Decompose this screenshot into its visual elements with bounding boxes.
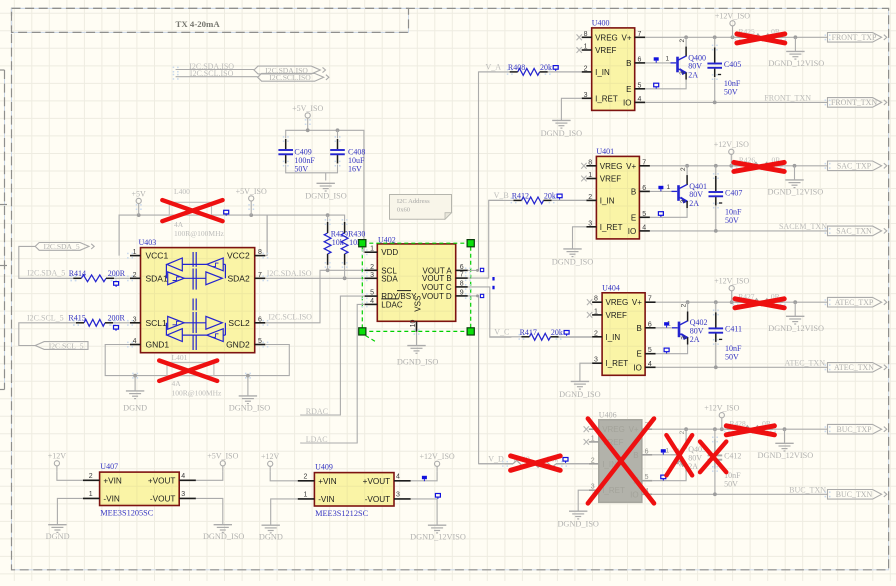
svg-text:1: 1: [133, 249, 137, 256]
wire U404 IO: [656, 365, 828, 369]
wire +5V rail: [119, 213, 345, 255]
resistor 0R (crossed out) U406: [724, 419, 776, 435]
svg-text:FRONT_TXP: FRONT_TXP: [832, 33, 877, 42]
ic U404 body: [602, 284, 645, 376]
svg-text:3: 3: [133, 316, 137, 323]
svg-text:V_A: V_A: [486, 63, 502, 72]
svg-text:200R: 200R: [108, 314, 126, 323]
svg-text:SDA: SDA: [381, 274, 398, 283]
left partial dashed boundary: [0, 70, 7, 390]
svg-text:+12V_ISO: +12V_ISO: [420, 452, 455, 461]
wire net V_B: [468, 200, 587, 278]
svg-text:SCL1: SCL1: [146, 318, 168, 328]
svg-text:+VIN: +VIN: [318, 477, 337, 486]
svg-text:-VOUT: -VOUT: [365, 495, 390, 504]
inductor L401 (crossed out): [159, 353, 222, 397]
svg-text:B: B: [637, 324, 642, 333]
svg-text:VREG: VREG: [595, 33, 618, 42]
resistor R429 10k: [324, 219, 348, 268]
wire R430 bottom: [344, 265, 346, 278]
U400 no-connect marks: [577, 34, 582, 53]
svg-text:+5V_ISO: +5V_ISO: [207, 452, 238, 461]
svg-text:VREF: VREF: [595, 46, 616, 55]
marker V_B: [492, 277, 494, 281]
svg-text:I2C.SDA_5: I2C.SDA_5: [27, 269, 65, 278]
svg-text:V+: V+: [621, 33, 631, 42]
svg-text:2: 2: [370, 264, 374, 271]
svg-text:4: 4: [642, 224, 646, 231]
ic U407 body: [100, 462, 180, 517]
ic U400 body: [592, 19, 635, 111]
svg-text:6: 6: [645, 448, 649, 455]
U407 pins: [83, 473, 196, 498]
svg-text:U401: U401: [596, 147, 614, 156]
wire net VCC2 to +5V_ISO: [265, 215, 267, 256]
wire U401 I_RET to ground: [573, 227, 587, 249]
svg-text:+12V: +12V: [48, 452, 67, 461]
svg-text:DGND_ISO: DGND_ISO: [552, 257, 594, 266]
svg-text:2: 2: [681, 303, 688, 307]
text frame I2C Address note: [390, 195, 452, 220]
power port +12V_ISO U400: [715, 12, 750, 38]
net label BUC_TXN: [789, 485, 826, 494]
svg-text:-VIN: -VIN: [318, 495, 334, 504]
svg-text:+12V_ISO: +12V_ISO: [714, 277, 749, 286]
marker V_A: [480, 268, 483, 271]
svg-text:4: 4: [181, 473, 185, 480]
svg-text:7: 7: [642, 159, 646, 166]
svg-text:5: 5: [370, 290, 374, 297]
svg-text:GND1: GND1: [146, 340, 170, 350]
svg-text:SDA2: SDA2: [227, 273, 249, 283]
svg-text:7: 7: [638, 31, 642, 38]
net label _LDAC: [301, 435, 328, 444]
U406 no-connect marks: [584, 426, 589, 445]
net label I2C.SDA_5: [27, 269, 65, 278]
net label I2C.SDA.ISO top: [189, 62, 234, 71]
svg-text:+12V: +12V: [261, 452, 280, 461]
svg-text:DGND_ISO: DGND_ISO: [203, 532, 245, 541]
svg-text:1: 1: [666, 184, 670, 191]
svg-text:IO: IO: [633, 363, 641, 372]
svg-text:V_B: V_B: [494, 191, 509, 200]
svg-text:4A: 4A: [172, 379, 182, 388]
svg-text:L400: L400: [174, 187, 190, 196]
net label V_D: [488, 455, 504, 464]
net label _RDAC: [301, 407, 328, 416]
svg-text:50V: 50V: [724, 88, 738, 97]
svg-text:SAC_TXN: SAC_TXN: [836, 227, 872, 236]
svg-text:2: 2: [679, 430, 686, 434]
svg-text:DGND_ISO: DGND_ISO: [559, 390, 601, 399]
ic U403 body: [139, 238, 255, 353]
svg-text:B: B: [633, 451, 638, 460]
wire net V_A: [468, 72, 582, 272]
svg-text:R417: R417: [520, 328, 537, 337]
resistor R419 (crossed out): [502, 455, 568, 471]
svg-text:B: B: [631, 187, 636, 196]
svg-text:80V: 80V: [689, 190, 703, 199]
svg-text:I2C.SDA_5: I2C.SDA_5: [44, 242, 80, 251]
svg-text:IO: IO: [623, 98, 631, 107]
svg-text:5: 5: [638, 82, 642, 89]
power port +5V: [132, 189, 147, 215]
svg-text:50V: 50V: [724, 479, 738, 488]
svg-text:2A: 2A: [690, 335, 700, 344]
svg-text:20k: 20k: [540, 63, 552, 72]
svg-text:4: 4: [648, 361, 652, 368]
svg-text:VREG: VREG: [602, 425, 625, 434]
capacitor C411 10nF: [709, 302, 743, 367]
svg-text:2A: 2A: [689, 199, 699, 208]
svg-text:6: 6: [460, 264, 464, 271]
power port +12V for U407: [48, 452, 83, 481]
svg-text:VREG: VREG: [600, 162, 623, 171]
wire U404 base: [656, 322, 672, 328]
U403 pins: [130, 249, 265, 345]
svg-text:3: 3: [370, 272, 374, 279]
transistor Q402: [667, 302, 708, 344]
resistor R430 10k: [341, 219, 365, 268]
wire net V_D: [468, 294, 589, 463]
svg-text:VCC1: VCC1: [146, 251, 169, 261]
wire U407 -VIN to ground: [57, 498, 83, 524]
svg-text:+5V_ISO: +5V_ISO: [292, 104, 323, 113]
svg-text:U407: U407: [100, 462, 118, 471]
wire net GND1 loop: [105, 345, 289, 378]
net label ATEC_TXN: [785, 358, 826, 367]
port BUC_TXP: [828, 424, 887, 434]
wire net I2C.SDA.ISO top: [173, 67, 254, 73]
svg-text:DGND_12VISO: DGND_12VISO: [768, 59, 824, 68]
wire +5V_ISO cap rail: [286, 128, 365, 252]
svg-text:3: 3: [679, 71, 686, 75]
ground DGND for U407: [46, 525, 70, 541]
ground DGND: [123, 376, 147, 413]
svg-text:R408: R408: [508, 63, 525, 72]
ground DGND_ISO U400: [541, 120, 583, 137]
svg-text:DGND: DGND: [259, 533, 283, 542]
svg-text:I_IN: I_IN: [595, 68, 610, 77]
svg-text:C405: C405: [724, 60, 741, 69]
svg-text:VCC2: VCC2: [227, 251, 250, 261]
wire net V_B: [489, 199, 587, 201]
svg-text:200R: 200R: [108, 269, 126, 278]
svg-text:I_IN: I_IN: [606, 333, 621, 342]
wire U400 I_RET to ground: [561, 98, 581, 120]
port I2C.SCL.ISO: [258, 73, 329, 82]
transistor Q403: [665, 429, 706, 471]
svg-text:+12V_ISO: +12V_ISO: [704, 404, 739, 413]
big red X over U406: [588, 419, 654, 504]
svg-text:8: 8: [460, 280, 464, 287]
svg-text:U409: U409: [315, 463, 333, 472]
ground DGND_12VISO U404: [768, 302, 824, 333]
svg-text:I2C.SCL.ISO: I2C.SCL.ISO: [268, 313, 312, 322]
svg-text:DGND_12VISO: DGND_12VISO: [768, 188, 824, 197]
svg-text:LDAC: LDAC: [381, 300, 403, 309]
power port +12V_ISO U404: [714, 277, 749, 303]
svg-text:I2C.SCL_5: I2C.SCL_5: [27, 314, 64, 323]
svg-text:GND2: GND2: [226, 340, 250, 350]
net label V_B: [494, 191, 509, 200]
svg-text:DGND_ISO: DGND_ISO: [541, 129, 583, 138]
U401 pins: [586, 159, 650, 231]
svg-text:DGND_12VISO: DGND_12VISO: [768, 324, 824, 333]
power port +12V for U409: [261, 452, 298, 481]
svg-text:I_RET: I_RET: [602, 486, 625, 495]
svg-text:80V: 80V: [688, 62, 702, 71]
svg-text:6: 6: [638, 56, 642, 63]
ic U409 body: [314, 463, 394, 518]
svg-text:VREF: VREF: [606, 311, 627, 320]
svg-text:16V: 16V: [348, 164, 362, 173]
svg-text:U403: U403: [139, 238, 157, 247]
wire U409 -VIN to ground: [271, 499, 298, 525]
svg-text:3: 3: [588, 220, 592, 227]
svg-text:R412: R412: [512, 192, 529, 201]
svg-text:1: 1: [584, 44, 588, 51]
wire U404 V+ rail: [656, 300, 828, 304]
wire U404 I_RET to ground: [580, 363, 592, 381]
svg-text:2: 2: [303, 474, 307, 481]
svg-text:100R@100MHz: 100R@100MHz: [172, 389, 222, 398]
wire R429 bottom: [327, 265, 329, 270]
capacitor C407 10nF: [709, 166, 743, 231]
svg-text:FRONT_TXN: FRONT_TXN: [764, 93, 811, 102]
wire net V_A: [479, 71, 582, 73]
svg-text:I_IN: I_IN: [600, 196, 615, 205]
wire U406 emitter: [652, 472, 686, 481]
wire net I2C.SCL.ISO top: [173, 74, 258, 80]
svg-text:E: E: [631, 213, 636, 222]
svg-text:DGND_ISO: DGND_ISO: [397, 357, 439, 366]
svg-text:1: 1: [665, 447, 669, 454]
svg-text:VREF: VREF: [600, 175, 621, 184]
svg-text:IO: IO: [630, 490, 638, 499]
port SAC_TXP: [828, 161, 887, 171]
marker V_D: [480, 294, 483, 297]
svg-text:BUC_TXP: BUC_TXP: [836, 425, 872, 434]
svg-text:I2C.SCL.ISO: I2C.SCL.ISO: [190, 69, 234, 78]
svg-text:+VOUT: +VOUT: [363, 477, 391, 486]
ground DGND_ISO under L401: [229, 376, 271, 413]
wire U409 -VOUT to ground: [411, 499, 437, 525]
wire U400 IO: [645, 101, 827, 105]
U403 isolation barrier: [193, 252, 196, 350]
svg-text:4: 4: [133, 338, 137, 345]
wire U406 I_RET to ground: [578, 490, 589, 511]
power port +5V_ISO (second): [292, 104, 323, 131]
svg-text:E: E: [637, 350, 642, 359]
svg-text:VREG: VREG: [606, 298, 629, 307]
capacitor C412 10nF: [708, 429, 742, 494]
ground DGND_12VISO U401: [768, 166, 824, 197]
wire net I2C.SCL_5: [19, 320, 130, 346]
capacitor C405 10nF: [707, 37, 741, 102]
wire U404 emitter: [656, 345, 688, 354]
svg-text:+5V_ISO: +5V_ISO: [236, 187, 267, 196]
TX 4-20mA dashed region: [12, 8, 409, 32]
port FRONT_TXP: [828, 33, 887, 43]
ground DGND_ISO U401: [552, 249, 594, 267]
svg-text:DGND: DGND: [46, 532, 70, 541]
U402 selection highlight: [359, 240, 475, 343]
svg-text:50V: 50V: [725, 216, 739, 225]
svg-text:3: 3: [681, 336, 688, 340]
power port +5V_ISO for U407: [196, 452, 239, 481]
wire U402 VSS to ground: [416, 332, 418, 346]
wire U400 emitter: [645, 80, 686, 89]
wire U401 base: [650, 186, 672, 192]
power port +12V_ISO U406: [704, 404, 739, 430]
svg-text:_RDAC: _RDAC: [301, 407, 328, 416]
svg-text:7: 7: [460, 272, 464, 279]
svg-text:SACEM_TXN: SACEM_TXN: [779, 222, 827, 231]
svg-text:C412: C412: [724, 452, 741, 461]
wire U401 IO: [650, 229, 828, 233]
wire U406 IO: [652, 492, 827, 496]
U406 pins: [589, 423, 653, 495]
resistor R417 20k: [519, 328, 570, 340]
port I2C.SDA_5: [35, 242, 94, 251]
resistor R414 200R: [69, 269, 126, 287]
svg-text:I_RET: I_RET: [606, 359, 629, 368]
ground DGND_12VISO U400: [768, 37, 824, 68]
svg-text:4: 4: [638, 96, 642, 103]
svg-text:BUC_TXN: BUC_TXN: [836, 490, 873, 499]
port FRONT_TXN: [828, 98, 887, 108]
svg-text:I2C.SCL.ISO: I2C.SCL.ISO: [269, 73, 311, 82]
svg-text:2: 2: [591, 457, 595, 464]
svg-text:E: E: [626, 85, 631, 94]
svg-text:5: 5: [645, 474, 649, 481]
net label I2C.SCL.ISO mid: [268, 313, 312, 322]
grip speckles: [127, 34, 830, 497]
U403 buffer triangles SDA: [166, 258, 225, 285]
inductor L400 (crossed out): [162, 187, 228, 238]
svg-text:V_D: V_D: [488, 455, 504, 464]
svg-text:B: B: [626, 59, 631, 68]
port ATEC_TXP: [828, 297, 887, 307]
ic U406 body: [599, 411, 642, 503]
wire net RDAC: [300, 296, 364, 415]
port I2C.SCL_5: [35, 341, 88, 350]
wire net LDAC: [300, 304, 364, 443]
port I2C.SDA.ISO: [254, 66, 326, 75]
svg-text:VDD: VDD: [381, 248, 398, 257]
svg-text:DGND_ISO: DGND_ISO: [557, 520, 599, 529]
svg-text:80V: 80V: [690, 326, 704, 335]
ic U402 body: [377, 235, 455, 321]
svg-text:4: 4: [370, 298, 374, 305]
net label I2C.SCL_5: [27, 314, 64, 323]
svg-text:DGND_12VISO: DGND_12VISO: [758, 451, 814, 460]
transistor Q401: [666, 166, 707, 208]
wire U401 emitter: [650, 208, 687, 217]
ground DGND_ISO for U407: [203, 525, 245, 541]
svg-text:ATEC_TXN: ATEC_TXN: [785, 358, 826, 367]
net label V_A: [486, 63, 502, 72]
svg-text:MEE3S1212SC: MEE3S1212SC: [315, 509, 368, 518]
svg-text:L401: L401: [172, 353, 188, 362]
wire net I2C.SDA.ISO mid: [265, 276, 364, 280]
svg-text:1: 1: [594, 308, 598, 315]
svg-text:DGND_12VISO: DGND_12VISO: [410, 533, 466, 542]
resistor R408 20k: [507, 63, 558, 75]
resistor 0R (crossed out) U404: [733, 292, 786, 308]
svg-text:I_RET: I_RET: [595, 94, 618, 103]
ground DGND_12VISO U406: [758, 429, 814, 460]
svg-text:8: 8: [594, 296, 598, 303]
power port +12V_ISO for U409: [411, 452, 455, 481]
svg-text:3: 3: [396, 492, 400, 499]
svg-text:I2C.SCL_5: I2C.SCL_5: [49, 341, 84, 350]
svg-text:2: 2: [588, 194, 592, 201]
svg-text:R414: R414: [69, 269, 86, 278]
svg-text:FRONT_TXN: FRONT_TXN: [831, 98, 877, 107]
svg-text:SCL2: SCL2: [228, 318, 250, 328]
svg-text:SAC_TXP: SAC_TXP: [837, 162, 872, 171]
wire U406 base: [652, 449, 670, 455]
resistor R412 20k: [511, 192, 562, 204]
wire U401 V+ rail: [650, 164, 828, 168]
svg-text:VOUT D: VOUT D: [422, 292, 452, 301]
wire net V_C: [490, 336, 592, 338]
svg-text:V+: V+: [632, 298, 642, 307]
svg-text:ATEC_TXN: ATEC_TXN: [834, 363, 874, 372]
svg-text:50V: 50V: [725, 352, 739, 361]
wire net I2C.SDA_5: [19, 246, 130, 281]
svg-text:2: 2: [133, 272, 137, 279]
svg-text:TX 4-20mA: TX 4-20mA: [176, 19, 221, 29]
svg-text:I2C Address: I2C Address: [397, 198, 430, 205]
marker V_C: [492, 286, 494, 290]
svg-text:C411: C411: [725, 325, 742, 334]
wire net I2C.SCL.ISO mid: [265, 268, 364, 322]
svg-text:R415: R415: [68, 314, 85, 323]
svg-text:1: 1: [591, 435, 595, 442]
net label FRONT_TXN: [764, 93, 811, 102]
svg-text:1: 1: [303, 492, 307, 499]
svg-text:-VIN: -VIN: [103, 494, 119, 503]
svg-text:DGND: DGND: [123, 403, 147, 412]
net label I2C.SDA.ISO mid: [267, 269, 312, 278]
red X over C412: [700, 442, 726, 473]
ground DGND_12VISO for U409: [410, 525, 466, 541]
resistor 0R (crossed out) U400: [735, 27, 787, 43]
svg-text:I_RET: I_RET: [600, 223, 623, 232]
ground DGND_ISO U404: [559, 381, 601, 399]
ic U401 body: [596, 147, 639, 239]
svg-text:+5V: +5V: [132, 189, 147, 198]
ground DGND for U409: [259, 525, 283, 541]
svg-text:0x60: 0x60: [397, 206, 411, 213]
capacitor C408 10uF: [330, 136, 365, 173]
power port +12V_ISO U401: [714, 140, 749, 166]
net label I2C.SCL.ISO top: [190, 69, 234, 78]
svg-text:V+: V+: [626, 162, 636, 171]
svg-text:6: 6: [648, 321, 652, 328]
wire net V_D: [479, 463, 589, 465]
U409 pins: [298, 474, 411, 499]
svg-text:50V: 50V: [294, 164, 308, 173]
wire U400 base: [645, 57, 670, 63]
svg-text:8: 8: [584, 31, 588, 38]
ground DGND_ISO under U402: [397, 346, 439, 367]
power port +5V_ISO: [236, 187, 267, 215]
capacitor C409 100nF: [278, 136, 315, 173]
